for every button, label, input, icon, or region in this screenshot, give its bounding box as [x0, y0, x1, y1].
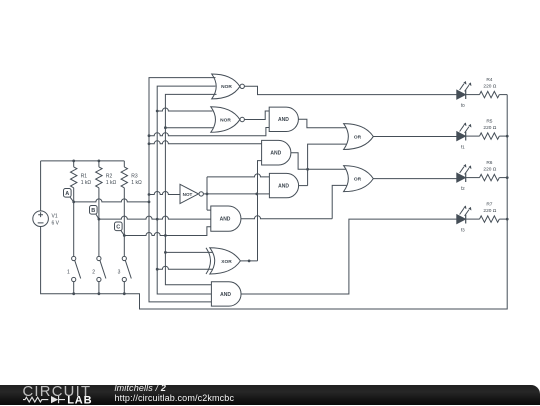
wire bus1 to AND1 input b — [149, 128, 269, 136]
svg-text:2: 2 — [92, 269, 95, 275]
junction A-bus1 — [148, 201, 151, 204]
resistor R5 — [466, 119, 508, 140]
wire bus3 to NOR2 input b — [165, 127, 213, 129]
wire NOT output — [203, 193, 256, 195]
nor-gate NOR U1 — [212, 74, 245, 99]
inverter NOT U3 — [180, 184, 203, 203]
svg-text:R3: R3 — [131, 174, 138, 180]
junction rail R7 — [506, 218, 509, 221]
resistor R7 — [466, 202, 508, 223]
wire V1 top to rail — [40, 161, 42, 211]
junction rail R6 — [506, 176, 509, 179]
wire node A line — [74, 199, 149, 202]
svg-text:AND: AND — [220, 217, 231, 223]
junction rail SW3 — [123, 292, 126, 295]
svg-text:V1: V1 — [52, 214, 58, 220]
wire bus1 to AND2 input a — [149, 141, 262, 144]
svg-text:220 Ω: 220 Ω — [483, 167, 496, 173]
node B — [90, 206, 99, 220]
LED f1 — [457, 123, 472, 150]
junction C-bus3 — [164, 234, 167, 237]
voltage source V1 — [33, 211, 60, 227]
attribution text — [115, 384, 166, 393]
svg-text:1 kΩ: 1 kΩ — [131, 180, 142, 186]
wire bus2 to XOR input b — [157, 266, 213, 269]
wire bus1 (node A vertical) — [149, 78, 216, 302]
svg-text:A: A — [65, 191, 69, 197]
junction B-bus2 — [156, 218, 159, 221]
resistor R2 — [96, 161, 117, 219]
wire bus3 to XOR input a — [165, 251, 213, 253]
svg-text:220 Ω: 220 Ω — [483, 84, 496, 90]
wire AND U5 output to OR U10 input a — [291, 153, 347, 170]
junction bus3-XORa — [164, 251, 167, 254]
CircuitLab logo — [22, 384, 112, 406]
and-gate AND U2 — [269, 107, 298, 131]
svg-text:f0: f0 — [461, 103, 465, 108]
wire AND U7 output to OR U10 input b — [241, 185, 347, 218]
and-gate AND U8 — [211, 282, 241, 306]
svg-text:R1: R1 — [81, 174, 88, 180]
svg-text:OR: OR — [354, 134, 362, 140]
svg-text:220 Ω: 220 Ω — [483, 125, 496, 131]
node C — [115, 222, 125, 236]
junction XOR output — [248, 260, 251, 263]
and-gate AND U5 — [262, 140, 291, 165]
svg-text:C: C — [116, 225, 120, 231]
wire OR U9 output to LED f1 — [373, 136, 457, 138]
wire bus2 (node B vertical) — [157, 86, 215, 294]
svg-text:6 V: 6 V — [52, 221, 60, 227]
svg-text:f1: f1 — [461, 144, 465, 149]
junction rail SW1 — [72, 292, 75, 295]
LED f2 — [457, 164, 472, 191]
svg-text:3: 3 — [118, 269, 121, 275]
wire bus1 to NOT input — [149, 192, 180, 195]
svg-text:f2: f2 — [461, 186, 465, 191]
junction top rail R1 — [72, 160, 75, 163]
wire return rail — [41, 95, 508, 309]
junction NOT-AND4 — [206, 193, 209, 196]
junction bus1-AND1b — [148, 134, 151, 137]
wire bus3 (node C vertical) — [165, 94, 216, 284]
nor-gate NOR U4 — [211, 107, 245, 133]
svg-text:AND: AND — [220, 292, 231, 298]
svg-text:1 kΩ: 1 kΩ — [81, 180, 92, 186]
svg-text:AND: AND — [278, 184, 289, 190]
switch SW2 — [92, 219, 106, 294]
svg-text:R4: R4 — [486, 77, 492, 83]
wire AND U8 output to LED f3 — [241, 219, 457, 294]
svg-text:B: B — [91, 208, 95, 214]
wire AND U2 output to OR U9 input a — [298, 119, 346, 128]
wire node B line — [99, 216, 211, 219]
junction bus2-XORb — [156, 268, 159, 271]
svg-text:OR: OR — [354, 177, 362, 183]
resistor R4 — [466, 77, 508, 98]
junction B-col2 — [98, 218, 101, 221]
svg-text:1: 1 — [67, 269, 70, 275]
or-gate OR U9 — [344, 124, 374, 150]
wire top rail — [41, 160, 125, 162]
wire AND U6 output — [299, 185, 308, 187]
LED f3 — [457, 206, 472, 233]
junction bus1-AND2a — [148, 142, 151, 145]
footer bar — [0, 385, 540, 405]
resistor R6 — [466, 160, 508, 181]
LED f0 — [457, 81, 472, 108]
wire NOT net to AND3 input a (hops AND2 feed) — [207, 174, 269, 177]
junction rail SW2 — [98, 292, 101, 295]
svg-text:AND: AND — [270, 151, 281, 157]
junction top rail R2 — [98, 160, 101, 163]
wire junction vertical to OR U9 input b — [308, 144, 347, 186]
wire NOT net to AND3 input b — [257, 193, 270, 195]
wire NOR U4 output to AND U2 input a — [244, 111, 269, 120]
junction NOT-XOR — [255, 193, 258, 196]
junction AND outputs — [306, 168, 309, 171]
node A — [64, 189, 74, 202]
svg-text:AND: AND — [278, 117, 289, 123]
svg-text:R2: R2 — [106, 174, 113, 180]
svg-text:R6: R6 — [486, 160, 492, 166]
switch SW3 — [118, 236, 132, 294]
junction C-col3 — [123, 234, 126, 237]
wire node C line — [124, 227, 211, 236]
wire NOR U1 output to LED f0 — [244, 86, 456, 94]
wire bus2 to NOR2 input a — [157, 108, 212, 111]
junction A-col1 — [72, 201, 75, 204]
junction bus3-NOR2b — [164, 126, 167, 129]
or-gate OR U10 — [344, 166, 374, 192]
svg-text:R5: R5 — [486, 119, 492, 125]
svg-text:NOT: NOT — [183, 192, 193, 197]
and-gate AND U6 — [269, 173, 298, 197]
svg-text:R7: R7 — [486, 202, 492, 208]
svg-text:f3: f3 — [461, 227, 465, 232]
resistor R1 — [70, 161, 91, 202]
svg-text:1 kΩ: 1 kΩ — [106, 180, 117, 186]
resistor R3 — [121, 161, 142, 236]
svg-text:XOR: XOR — [221, 259, 232, 265]
and-gate AND U7 — [211, 206, 241, 231]
wire OR U10 output to LED f2 — [373, 178, 457, 180]
junction bus2-NOR2a — [156, 110, 159, 113]
switch SW1 — [67, 202, 81, 294]
xor-gate XOR U11 — [206, 248, 240, 274]
svg-text:220 Ω: 220 Ω — [483, 208, 496, 214]
junction bus1-NOTin — [148, 193, 151, 196]
wire XOR output — [240, 260, 257, 262]
svg-text:NOR: NOR — [221, 84, 232, 90]
wire NOT out to AND4 input a — [207, 177, 211, 210]
svg-text:NOR: NOR — [220, 117, 231, 123]
wire vertical NOT net to AND2/XOR — [258, 161, 262, 261]
junction rail R5 — [506, 135, 509, 138]
svg-text:LAB: LAB — [67, 394, 92, 406]
